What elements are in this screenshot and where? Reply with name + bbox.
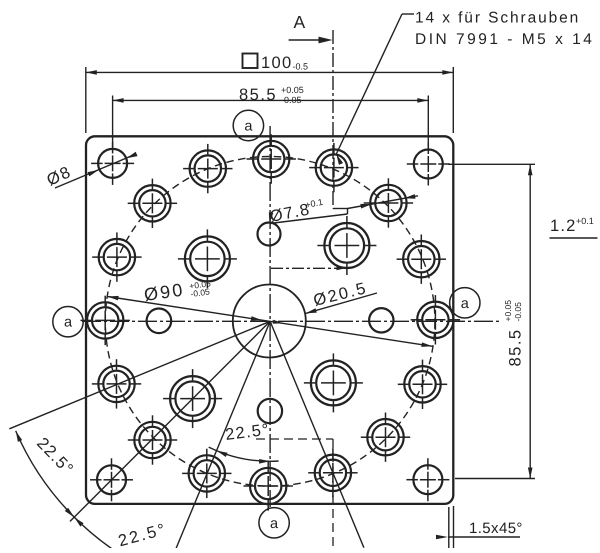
- section trace line (dash-dot at x=333): [332, 30, 334, 209]
- angular dimension arc 22.5deg (lower left): [16, 431, 154, 553]
- svg-text:a: a: [270, 516, 279, 532]
- svg-text:DIN 7991 - M5 x 14: DIN 7991 - M5 x 14: [415, 31, 594, 48]
- arrowhead on big arc upper end: [16, 431, 23, 442]
- svg-text:-0.05: -0.05: [281, 95, 302, 105]
- svg-text:+0.05: +0.05: [281, 85, 304, 95]
- interior port hole SW diagonal: [163, 369, 222, 428]
- dimension 85.5 right witness top: [448, 163, 535, 165]
- svg-text:+0.05: +0.05: [503, 300, 513, 322]
- plain hole Ø7.8 bottom: [258, 399, 282, 423]
- angular dimension arc 22.5deg (bottom center): [209, 447, 279, 461]
- screw hole M5 at -135deg on bolt circle: [128, 415, 177, 464]
- dimension line 85.5 vertical: [529, 164, 531, 478]
- note 14 x fuer Schrauben DIN 7991 - M5 x 14: [415, 10, 594, 49]
- center hole Ø20.5: [233, 285, 306, 358]
- hidden line vertical (dashed): [332, 439, 334, 548]
- svg-text:-0.5: -0.5: [293, 62, 309, 72]
- screw hole M5 at E 0deg on bolt circle: [411, 295, 460, 344]
- svg-text:14 x für Schrauben: 14 x für Schrauben: [415, 10, 580, 27]
- angular text 22.5 (lower-left): [33, 434, 77, 479]
- bolt circle Ø90 (dashed pitch circle): [105, 156, 435, 486]
- screw hole M5 at 45deg on bolt circle: [364, 178, 413, 227]
- corner hole Ø8 bottom-left: [90, 458, 133, 501]
- label Ø7.8 +0.1 with leader: [268, 197, 325, 226]
- arrowhead small arc right: [259, 459, 270, 464]
- interior port hole SE diagonal: [304, 353, 363, 412]
- screw hole M5 at N 90deg on bolt circle: [247, 134, 296, 183]
- screw hole M5 at 157.5deg on bolt circle: [92, 232, 141, 281]
- radial line 202.5deg: [9, 321, 270, 429]
- svg-text:A: A: [294, 12, 306, 32]
- dimension text square 100 -0.5: [243, 54, 309, 73]
- svg-text:a: a: [64, 315, 73, 331]
- radial line 225deg: [70, 321, 270, 521]
- dimension 85.5 witness line left: [112, 96, 114, 148]
- screw hole M5 at 135deg on bolt circle: [128, 179, 177, 228]
- corner hole Ø8 bottom-right: [406, 458, 449, 501]
- hidden line horizontal (dashed): [256, 438, 333, 440]
- label Ø20.5 with leader: [312, 279, 370, 310]
- svg-text:a: a: [461, 296, 470, 312]
- dimension 85.5 witness line right: [427, 96, 429, 148]
- dimension line 85.5: [113, 99, 429, 101]
- arrowhead small arc left: [217, 451, 228, 457]
- svg-text:1.5x45°: 1.5x45°: [469, 520, 523, 537]
- screw hole M5 at -112.5deg on bolt circle: [182, 449, 231, 498]
- datum target circle a (right): [450, 288, 480, 318]
- screw hole M5 at 22.5deg on bolt circle: [397, 235, 446, 284]
- leader for 14x note: [402, 13, 414, 15]
- note 1.2 +0.1: [550, 216, 598, 238]
- plate outline (100x100 square, rounded corners): [86, 136, 453, 504]
- svg-text:1.2: 1.2: [550, 217, 577, 235]
- datum target circle a (top): [233, 110, 263, 140]
- screw hole M5 at -157.5deg on bolt circle: [92, 359, 141, 408]
- dimension 85.5 right witness bottom: [455, 478, 535, 480]
- dimension text 85.5 +0.05/-0.05: [239, 85, 304, 105]
- screw hole M5 at -45deg on bolt circle: [361, 413, 410, 462]
- radial line 292.5deg: [270, 321, 364, 547]
- dimension line 100: [86, 71, 454, 73]
- svg-text:a: a: [244, 119, 253, 135]
- screw hole M5 at S -90deg on bolt circle: [244, 461, 293, 510]
- arrowheads on big arc at 225deg radial: [74, 517, 83, 526]
- plain hole Ø7.8 left: [147, 309, 172, 334]
- svg-text:85.5: 85.5: [239, 86, 277, 104]
- plain hole Ø7.8 top: [258, 223, 281, 246]
- label Ø8 with leader: [44, 163, 74, 190]
- corner hole Ø8 top-left: [91, 142, 134, 185]
- dimension 100 witness line right: [452, 67, 454, 133]
- angular text 22.5 (bottom): [116, 520, 169, 550]
- short centerline with arrow near Ø7.8 hole: [271, 267, 341, 269]
- section arrow: [289, 39, 323, 41]
- dimension text 85.5 vertical: [503, 300, 525, 367]
- corner hole Ø8 top-right: [407, 143, 450, 186]
- interior port hole NW diagonal: [178, 229, 237, 288]
- chamfer dimension 1.5x45deg: [448, 536, 520, 538]
- screw hole M5 at -22.5deg on bolt circle: [398, 360, 447, 409]
- screw hole M5 at 112.5deg on bolt circle: [183, 144, 232, 193]
- svg-text:-0.05: -0.05: [513, 302, 523, 322]
- angular text 22.5 (center): [224, 421, 271, 444]
- vertical centerline: [269, 126, 271, 507]
- svg-text:100: 100: [261, 54, 292, 72]
- dimension 100 witness line left: [85, 67, 87, 133]
- datum target circle a (left): [53, 307, 83, 337]
- horizontal centerline: [82, 320, 500, 322]
- screw hole M5 at -67.5deg on bolt circle: [308, 448, 357, 497]
- chamfer witness lines: [448, 507, 450, 548]
- svg-text:85.5: 85.5: [507, 328, 525, 366]
- label Ø90 with tolerance and leader: [143, 276, 213, 306]
- interior port hole NE diagonal: [317, 216, 376, 275]
- plain hole Ø7.8 right: [369, 308, 393, 332]
- svg-text:+0.1: +0.1: [576, 216, 594, 226]
- datum target circle a (bottom): [259, 508, 289, 538]
- screw hole M5 at 67.5deg on bolt circle: [309, 143, 358, 192]
- radial line 247.5deg: [174, 321, 270, 553]
- screw hole M5 at W 180deg on bolt circle: [81, 296, 130, 345]
